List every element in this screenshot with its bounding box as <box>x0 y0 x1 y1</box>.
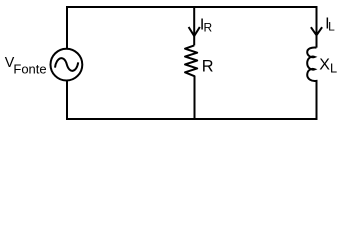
svg-text:R: R <box>204 21 213 35</box>
svg-text:L: L <box>328 20 335 34</box>
svg-text:Fonte: Fonte <box>13 62 46 77</box>
svg-text:R: R <box>202 58 214 76</box>
svg-text:X: X <box>319 57 330 74</box>
svg-text:L: L <box>330 61 337 76</box>
